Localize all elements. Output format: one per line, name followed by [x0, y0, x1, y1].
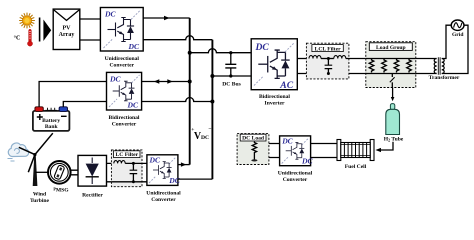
load resistor R2 [382, 59, 387, 73]
svg-text:DC: DC [104, 10, 116, 19]
svg-text:DC: DC [281, 137, 293, 146]
arrow right on U2 wire [167, 79, 173, 83]
wind turbine [19, 133, 53, 186]
svg-text:DC Bus: DC Bus [222, 82, 241, 88]
arrow right on U1 top wire [164, 16, 170, 20]
LCL inductor 1 [309, 56, 321, 59]
LC filter box [111, 150, 142, 187]
svg-text:Array: Array [59, 32, 75, 38]
svg-text:Converter: Converter [110, 63, 135, 69]
battery bank [33, 107, 70, 131]
junction dot positive bus battery [188, 80, 192, 84]
unidirectional converter U1 box [100, 8, 143, 52]
LCL out wire [346, 58, 366, 60]
IGBT U1 [108, 18, 135, 42]
junction dot negative bus battery [210, 100, 214, 104]
wires U4 to fuel cell [311, 144, 337, 158]
svg-text:Grid: Grid [452, 32, 464, 38]
svg-text:DC Load: DC Load [242, 136, 265, 142]
LC wire after inductor [125, 162, 147, 164]
svg-text:LC Filter: LC Filter [116, 152, 139, 158]
bidirectional inverter box [251, 39, 297, 91]
negative DC bus [211, 40, 213, 179]
svg-text:DC: DC [168, 176, 180, 185]
LC inductor [114, 161, 125, 164]
arrow down to H2 tube [391, 97, 395, 101]
svg-text:PV: PV [63, 25, 72, 31]
svg-text:DC: DC [127, 101, 139, 110]
load resistor R4 [407, 59, 412, 73]
inverter AC bottom wire [297, 73, 366, 75]
svg-text:Wind: Wind [33, 191, 47, 197]
svg-text:Unidirectional: Unidirectional [146, 191, 181, 197]
svg-text:PMSG: PMSG [53, 186, 69, 193]
LCL filter box [306, 43, 349, 79]
svg-text:Load Group: Load Group [376, 45, 406, 51]
svg-text:Transformer: Transformer [429, 75, 460, 81]
LC filter label band [114, 151, 140, 158]
DC load box [237, 134, 269, 165]
DC load ground [251, 154, 257, 162]
svg-text:Unidirectional: Unidirectional [278, 171, 313, 177]
LC capacitor [130, 162, 138, 183]
grid source [451, 20, 464, 30]
wire load group to H2 tube electrolyzer [392, 88, 394, 98]
wire U3 bottom to negative bus [178, 178, 213, 180]
unidirectional converter U3 box [147, 155, 181, 186]
transformer [416, 57, 444, 74]
load group box [366, 42, 416, 88]
LCL filter label band [312, 45, 343, 52]
svg-text:LCL Filter: LCL Filter [315, 46, 341, 52]
svg-text:DC: DC [255, 42, 270, 53]
thermometer [28, 29, 33, 46]
wire battery minus to converter [63, 102, 106, 107]
svg-text:Fuel Cell: Fuel Cell [345, 164, 367, 170]
inverter AC top wire to LCL [297, 58, 309, 60]
svg-text:Bank: Bank [45, 124, 59, 130]
wire transformer to grid left [442, 25, 452, 58]
junction dot negative bus rail [210, 74, 214, 78]
load group bottom rail [366, 73, 416, 75]
svg-text:H2 Tube: H2 Tube [384, 137, 404, 143]
wire H2 tube to fuel cell [378, 142, 394, 150]
IGBT U4 [286, 142, 305, 159]
svg-text:Converter: Converter [283, 177, 308, 183]
PMSG generator [48, 161, 71, 184]
load resistor R3 [394, 59, 399, 73]
svg-text:Converter: Converter [151, 197, 176, 203]
rectifier box [78, 155, 107, 186]
load group top rail [366, 58, 416, 60]
bidirectional converter U2 box [107, 72, 142, 110]
shaft wire to PMSG [36, 171, 48, 173]
wires DC load to converter U4 [269, 144, 280, 158]
wire battery plus to converter [39, 82, 106, 107]
svg-text:DC: DC [128, 42, 140, 51]
arrow into fuel cell [375, 148, 381, 152]
svg-text:°C: °C [14, 35, 21, 42]
svg-text:DC: DC [149, 156, 161, 165]
unidirectional converter U4 box [280, 136, 314, 166]
wire transformer to grid right [442, 25, 468, 73]
svg-text:DC: DC [109, 74, 121, 83]
IGBT inverter [258, 50, 289, 78]
DC load label band [240, 134, 266, 141]
LCL mid wire [321, 58, 334, 60]
IGBT U2 [113, 81, 135, 101]
irradiance arrow [43, 20, 51, 42]
load resistor R1 [369, 59, 374, 73]
DC load resistor [252, 142, 256, 154]
positive rail to inverter with hop over negative bus [190, 49, 252, 53]
svg-text:Converter: Converter [112, 121, 137, 127]
svg-text:Inverter: Inverter [265, 100, 285, 106]
positive DC bus [189, 18, 191, 165]
IGBT U3 [153, 162, 172, 179]
LCL inductor 2 [334, 56, 346, 59]
irradiance input bar [39, 18, 41, 42]
sun icon [19, 13, 35, 29]
wire U3 top to positive bus [178, 164, 190, 166]
svg-text:Bidirectional: Bidirectional [109, 115, 140, 121]
arrow right on U3 wire [181, 162, 187, 166]
LC bottom wire [111, 181, 146, 183]
wire PV to converter bottom [80, 39, 101, 41]
DC bus capacitor [225, 51, 236, 77]
svg-text:Turbine: Turbine [30, 198, 50, 204]
svg-text:AC: AC [279, 80, 293, 91]
junction dot positive bus rail [188, 51, 192, 55]
wires PMSG to rectifier [70, 170, 78, 175]
H2 tube [386, 104, 400, 135]
wire U1 out top to positive bus [143, 17, 190, 19]
svg-text:Unidirectional: Unidirectional [105, 56, 140, 62]
svg-text:Rectifier: Rectifier [82, 193, 103, 199]
wire U2 top to positive bus with bidirectional arrows [142, 81, 190, 83]
PV array box [53, 9, 80, 49]
cloud icon [8, 143, 29, 161]
svg-text:−: − [208, 127, 211, 133]
VDC label [191, 127, 211, 143]
wire U2 bottom to negative bus with hop over positive bus [142, 98, 213, 102]
svg-text:Bidirectional: Bidirectional [259, 94, 290, 100]
LCL capacitor [325, 57, 333, 75]
wires rectifier to LC filter [107, 163, 114, 181]
fuel cell stack [337, 140, 374, 161]
load group tap switch [390, 74, 395, 88]
arrow left on U2 wire [154, 79, 160, 83]
svg-text:DC: DC [201, 135, 209, 141]
wire U1 out bottom to negative bus with hop over positive bus [143, 36, 212, 40]
negative rail to inverter [212, 75, 251, 77]
wire PV to converter top [80, 18, 101, 20]
